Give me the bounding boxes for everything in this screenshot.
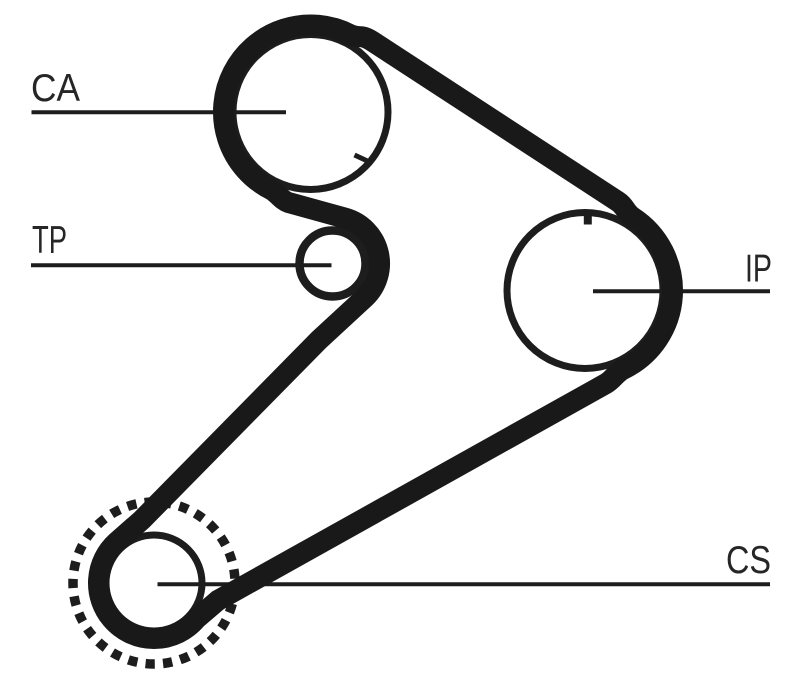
svg-text:CS: CS (726, 539, 771, 582)
tensioner pulley TP (300, 231, 366, 297)
svg-text:IP: IP (745, 248, 772, 291)
leader line IP (593, 289, 770, 293)
leader line CA (32, 110, 287, 114)
timing belt (99, 25, 673, 639)
timing mark on CA (355, 155, 369, 162)
injection pump pulley IP (507, 213, 663, 369)
crankshaft pulley CS (106, 535, 202, 631)
dotted reference circle around CS (73, 502, 235, 664)
leader line CS (158, 582, 771, 586)
svg-text:TP: TP (32, 219, 67, 262)
timing mark on IP (584, 210, 592, 225)
svg-text:CA: CA (31, 67, 80, 110)
leader line TP (31, 263, 332, 267)
camshaft pulley CA (233, 35, 388, 190)
